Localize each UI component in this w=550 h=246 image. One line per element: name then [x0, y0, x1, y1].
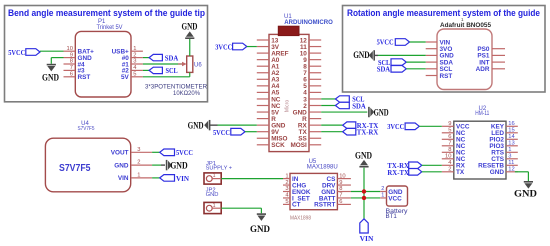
P1 pin 5 5V: [121, 72, 143, 82]
ground (BNO055 GND): [353, 50, 378, 61]
svg-text:MOSI: MOSI: [290, 142, 307, 149]
P1 pin 7 #3: [64, 65, 86, 75]
svg-text:VOUT: VOUT: [111, 150, 129, 157]
label 1 (BNO055 designator): [461, 17, 464, 22]
wire GND to BNO055: [378, 54, 426, 56]
svg-text:Trinket 5V: Trinket 5V: [97, 25, 123, 31]
U1 left pin NC: [257, 103, 281, 110]
U2 pin 10 NC: [442, 154, 466, 164]
svg-text:5VCC: 5VCC: [213, 128, 230, 137]
label U4: [81, 121, 89, 127]
svg-text:SDA: SDA: [165, 53, 179, 62]
svg-text:BT1: BT1: [386, 213, 398, 220]
U1 left pin A4: [257, 83, 280, 90]
wire GND pin 9: [51, 58, 63, 64]
U1 Micro text: [285, 100, 291, 112]
U2 pin 7 NC: [442, 141, 466, 151]
supply flag 5VCC (BNO055 VIN): [377, 38, 410, 47]
U1 left pin A5: [257, 90, 280, 97]
svg-text:3: 3: [285, 186, 288, 192]
svg-text:5: 5: [285, 199, 288, 205]
svg-text:11: 11: [508, 160, 514, 166]
header JP1: [206, 161, 216, 167]
wire SCL flag to SDA pin: [406, 61, 425, 63]
svg-text:RX-TX: RX-TX: [387, 168, 409, 177]
wire U5 BATT to battery VCC: [351, 197, 380, 199]
U1 left pin AREF: [257, 50, 289, 57]
U5 pin 2 CHG: [283, 180, 306, 190]
IC U1 ARDUINOMICRO body: [269, 34, 309, 151]
JP2 body: [204, 202, 221, 213]
wire 3VCC to VCC: [419, 125, 442, 127]
U1 left pin R: [257, 116, 276, 123]
P1 pin 6 RST: [64, 72, 91, 82]
U1 left pin MISO: [257, 136, 288, 143]
ground (P1 GND): [42, 65, 59, 84]
ground (U2 GND): [514, 182, 537, 200]
U2 pin 5 NC: [442, 128, 466, 138]
supply flag VIN (battery net bottom): [360, 219, 374, 243]
net flag RX-TX (U1 RX): [321, 121, 378, 130]
svg-text:SCL: SCL: [166, 66, 178, 75]
wire RX-TX to TX: [422, 171, 442, 173]
svg-text:12: 12: [508, 167, 514, 173]
ground (U1 right GND): [369, 107, 389, 119]
U4 pin 1 VIN: [118, 173, 152, 183]
svg-text:ARDUINOMICRO: ARDUINOMICRO: [284, 19, 333, 26]
wire U2 GND pin to ground: [515, 172, 529, 181]
supply flag 5VCC (P1 BAT+): [8, 48, 40, 57]
ground (potentiometer top): [182, 22, 198, 39]
net flag SCL (P1 #2): [143, 66, 178, 75]
svg-text:RSTRT: RSTRT: [314, 202, 335, 209]
svg-text:GND: GND: [206, 192, 219, 198]
U1 right pin SS: [298, 136, 321, 143]
BNO055 pin INT: [479, 59, 505, 66]
wire TX-RX to RX: [422, 164, 442, 166]
svg-text:1: 1: [213, 203, 216, 209]
svg-text:VIN: VIN: [176, 174, 189, 183]
svg-text:8: 8: [339, 186, 342, 192]
U2 pin 6 NC: [442, 134, 466, 144]
svg-text:SDA: SDA: [352, 101, 366, 110]
svg-text:GND: GND: [188, 120, 204, 131]
frame: bend angle measurement box: [5, 6, 208, 102]
svg-text:GND: GND: [353, 50, 369, 61]
svg-text:TX: TX: [456, 169, 465, 176]
U1 left pin GND: [257, 122, 286, 129]
U5 pin 9 DRV: [322, 180, 351, 190]
U1 left pin A0: [257, 57, 280, 64]
svg-text:GND: GND: [114, 162, 129, 169]
ground (JP2): [250, 214, 270, 235]
value MAX1898U: [307, 164, 338, 171]
potentiometer U6 body: [187, 56, 203, 72]
svg-text:10: 10: [445, 154, 451, 160]
header JP2: [206, 187, 216, 193]
P1 pin 9 GND: [64, 52, 93, 62]
svg-text:GND: GND: [250, 224, 270, 235]
ground (battery net top): [355, 151, 372, 167]
U4 pin 3 VOUT: [111, 147, 152, 157]
svg-text:10: 10: [339, 173, 345, 179]
svg-text:MAX1898U: MAX1898U: [307, 164, 338, 171]
value S7V7F5 label: [78, 126, 95, 132]
U4 pin 2 GND: [114, 160, 152, 170]
module Adafruit BNO055 body: [437, 29, 492, 90]
wire 5VCC to 9V: [245, 131, 257, 133]
label Battery: [386, 208, 409, 215]
U1 USB connector block: [278, 26, 299, 35]
charger U5 MAX1898U body: [290, 173, 337, 209]
regulator U4 S7V7F5 body: [45, 138, 130, 192]
svg-text:5: 5: [133, 72, 136, 78]
U1 right pin 4: [303, 90, 321, 97]
svg-text:GND: GND: [490, 169, 505, 176]
svg-text:2: 2: [448, 167, 451, 173]
svg-text:9: 9: [448, 121, 451, 127]
svg-text:1: 1: [508, 147, 511, 153]
svg-text:MAX1898: MAX1898: [290, 215, 311, 221]
ground (U4 GND): [161, 160, 188, 172]
svg-text:5: 5: [448, 128, 451, 134]
svg-text:14: 14: [508, 134, 515, 140]
value MAX1898 silk: [290, 215, 311, 221]
wire JP2 to ground: [221, 208, 261, 213]
U2 pin 3 CTS: [491, 154, 518, 164]
svg-text:Rotation angle measurement sys: Rotation angle measurement system of the…: [347, 8, 540, 19]
BNO055 pin 3VO: [426, 46, 453, 53]
value SUPPLY +: [206, 166, 233, 172]
supply flag 5VCC (U4 VOUT): [160, 148, 194, 157]
U2 pin 1 RTS: [491, 147, 518, 157]
svg-text:CT: CT: [292, 202, 301, 209]
svg-text:5VCC: 5VCC: [176, 148, 193, 157]
wire JP1 to U5 IN: [221, 178, 283, 180]
U1 right pin R: [302, 116, 321, 123]
U2 pin 4 RX: [442, 160, 466, 170]
BNO055 pin ADR: [476, 66, 505, 73]
wire 5VCC to VIN: [410, 41, 426, 43]
svg-text:1: 1: [213, 173, 216, 179]
BT1 pin 1 VCC: [380, 193, 402, 203]
wire left GND: [218, 124, 257, 126]
title: Rotation angle measurement system of the guide: [347, 8, 540, 19]
U2 pin 14 PIO2: [489, 134, 517, 144]
junction (BATT net): [362, 196, 366, 200]
U1 left pin 9V: [257, 129, 280, 136]
svg-text:10: 10: [67, 46, 73, 52]
svg-text:VIN: VIN: [118, 175, 129, 182]
svg-text:RST: RST: [440, 73, 453, 80]
U2 pin 8 NC: [442, 147, 466, 157]
svg-text:GND: GND: [42, 73, 59, 84]
svg-text:3VCC: 3VCC: [387, 122, 404, 131]
IC P1 Trinket 5V body: [75, 31, 131, 97]
svg-text:2: 2: [133, 52, 136, 58]
title: Bend angle measurement system of the guide tip: [8, 8, 205, 19]
BNO055 pin SCL: [426, 66, 453, 73]
JP2 pin 1: [206, 203, 221, 211]
U1 right pin 5: [303, 83, 321, 90]
label U5: [309, 159, 317, 165]
supply flag 3VCC (U1 3V): [215, 42, 247, 51]
svg-text:3VCC: 3VCC: [215, 42, 232, 51]
net flag SDA (P1 #0): [143, 53, 179, 62]
ground (U1 left GND): [188, 120, 218, 131]
svg-text:6: 6: [339, 199, 342, 205]
svg-text:3: 3: [508, 154, 511, 160]
svg-text:U6: U6: [194, 62, 202, 68]
P1 pin 8 #4: [64, 59, 86, 69]
BNO055 pin PS1: [477, 53, 505, 60]
svg-text:S7V7F5: S7V7F5: [59, 163, 91, 174]
svg-text:3: 3: [133, 59, 136, 65]
svg-text:ADR: ADR: [476, 66, 490, 73]
value GND (JP2): [206, 192, 219, 198]
value ARDUINOMICRO: [284, 19, 333, 26]
U2 pin 11 RESETB: [478, 160, 518, 170]
wire U4 VIN: [152, 177, 160, 179]
wire U5 GND to battery GND: [351, 191, 380, 193]
svg-text:GND: GND: [170, 160, 188, 171]
label U1: [284, 14, 292, 20]
BNO055 pin RST: [426, 73, 453, 80]
svg-text:1: 1: [133, 46, 136, 52]
wire battery vertical net: [363, 168, 365, 219]
svg-text:Bend angle measurement system: Bend angle measurement system of the gui…: [8, 8, 205, 19]
U2 pin 12 GND: [490, 167, 518, 177]
value HM-11: [475, 111, 490, 117]
svg-text:5VCC: 5VCC: [8, 48, 25, 57]
svg-text:VIN: VIN: [360, 234, 374, 243]
value Trinket 5V: [97, 25, 123, 31]
svg-text:6: 6: [448, 134, 451, 140]
U1 right pin TX: [299, 129, 322, 136]
U1 right pin 2: [303, 103, 321, 110]
U1 right pin 10: [300, 50, 322, 57]
net flag SCL (U1 pin3): [321, 95, 364, 104]
U1 right pin 8: [303, 64, 321, 71]
P1 pin 2 #0: [122, 52, 143, 62]
BT1 pin 2 GND: [380, 186, 403, 196]
supply flag VIN (U4 VIN): [160, 174, 190, 183]
battery BT1 body: [387, 186, 408, 206]
JP1 body: [204, 173, 221, 184]
U5 pin 3 ENOK: [283, 186, 311, 196]
svg-text:SCK: SCK: [271, 142, 285, 149]
potentiometer U6 wiper arrow: [178, 62, 187, 67]
svg-text:VCC: VCC: [388, 196, 402, 203]
BNO055 pin SDA: [426, 59, 454, 66]
BNO055 pin GND: [426, 53, 454, 60]
JP1 pin 1: [206, 173, 221, 181]
svg-text:2: 2: [381, 186, 384, 192]
wire #1 to potentiometer wiper: [143, 63, 182, 65]
U1 left pin 13: [257, 37, 279, 44]
svg-text:1: 1: [381, 193, 384, 199]
value Adafruit BNO055: [440, 22, 491, 29]
net flag SDA (BNO055 SCL): [377, 65, 407, 74]
svg-text:TX-RX: TX-RX: [357, 128, 379, 137]
net flag SCL (BNO055 SDA): [378, 58, 406, 67]
wire right GND: [321, 111, 367, 113]
svg-text:7: 7: [70, 65, 73, 71]
wire U4 GND: [152, 164, 161, 166]
supply flag 3VCC (U2 VCC): [387, 122, 419, 131]
BNO055 pin PS0: [477, 46, 505, 53]
U5 pin 5 CT: [283, 199, 301, 209]
U5 pin 1 IN: [283, 173, 299, 183]
U2 pin 9 VCC: [442, 121, 470, 131]
svg-text:GND: GND: [514, 188, 537, 199]
svg-text:7: 7: [339, 193, 342, 199]
U5 pin 4 I_SET: [283, 193, 310, 203]
svg-text:2: 2: [285, 180, 288, 186]
U1 left pin NC: [257, 96, 281, 103]
BNO055 pin VIN: [426, 39, 451, 46]
P1 pin 3 #1: [122, 59, 143, 69]
svg-text:S7V7F5: S7V7F5: [78, 126, 95, 132]
U1 right pin 9: [303, 57, 321, 64]
svg-text:Micro: Micro: [285, 100, 291, 112]
svg-text:GND: GND: [355, 151, 372, 162]
U1 right pin 7: [303, 70, 321, 77]
wire VOUT to 5VCC: [152, 151, 160, 153]
label U2: [479, 106, 487, 112]
svg-text:9: 9: [339, 180, 342, 186]
net flag TX-RX (U1 TX): [321, 128, 378, 137]
U2 pin 13 PIO3: [489, 141, 517, 151]
wire 5V to potentiometer bottom: [143, 72, 190, 76]
U1 right pin GND: [293, 109, 322, 116]
svg-text:5VCC: 5VCC: [377, 38, 394, 47]
frame: rotation angle measurement box: [343, 6, 546, 93]
net flag RX-TX (U2 TX): [387, 168, 421, 177]
U1 right pin 3: [303, 96, 321, 103]
svg-text:7: 7: [448, 141, 451, 147]
U1 right pin 11: [300, 44, 321, 51]
junction (GND net): [362, 189, 366, 193]
wire 5VCC to BAT+: [40, 50, 64, 52]
svg-text:SUPPLY +: SUPPLY +: [206, 166, 233, 172]
U5 pin 7 BATT: [319, 193, 351, 203]
svg-text:13: 13: [508, 141, 514, 147]
U5 pin 10 CS: [327, 173, 351, 183]
label P1: [98, 19, 106, 25]
U1 left pin 5V: [257, 109, 280, 116]
U4 S7V7F5 inner text: [59, 163, 91, 174]
P1 pin 4 #2: [122, 65, 143, 75]
U1 right pin MOSI: [290, 142, 321, 149]
svg-text:Adafruit BNO055: Adafruit BNO055: [440, 22, 491, 29]
U1 left pin A1: [257, 64, 280, 71]
U1 left pin A2: [257, 70, 280, 77]
svg-text:5V: 5V: [121, 74, 130, 81]
wire potentiometer top to GND: [189, 39, 191, 56]
net flag SDA (U1 pin2): [321, 101, 366, 110]
svg-text:10KΩ20%: 10KΩ20%: [173, 90, 200, 97]
svg-text:1: 1: [285, 173, 288, 179]
P1 pin 10 BAT+: [64, 46, 95, 56]
U1 right pin 6: [303, 77, 321, 84]
svg-text:6: 6: [70, 72, 73, 78]
svg-text:GND: GND: [374, 107, 389, 118]
wire 3VCC to 3V: [247, 46, 257, 48]
P1 pin 1 USB+: [112, 46, 143, 56]
U5 pin 6 RSTRT: [314, 199, 351, 209]
U2 pin 15 LED: [491, 128, 518, 138]
label BT1: [386, 213, 398, 220]
U1 right pin RX: [298, 122, 321, 129]
U1 left pin 3V: [257, 44, 280, 51]
value 3*3POTENTIOMETER 10K 20%: [145, 84, 207, 97]
svg-text:2: 2: [137, 160, 140, 166]
U1 left pin A3: [257, 77, 280, 84]
U1 right pin 12: [300, 37, 322, 44]
svg-text:3: 3: [137, 147, 140, 153]
svg-text:1: 1: [137, 173, 140, 179]
svg-text:HM-11: HM-11: [475, 111, 490, 117]
svg-text:16: 16: [508, 121, 514, 127]
net flag TX-RX (U2 RX): [387, 161, 421, 170]
U1 left pin SCK: [257, 142, 285, 149]
svg-text:SDA: SDA: [377, 65, 391, 74]
svg-text:15: 15: [508, 128, 514, 134]
svg-text:RST: RST: [78, 74, 91, 81]
U2 pin 2 TX: [442, 167, 465, 177]
svg-text:9: 9: [70, 52, 73, 58]
wire SDA flag to SCL pin: [406, 68, 425, 70]
supply flag 5VCC (U1 9V): [213, 128, 245, 137]
svg-text:8: 8: [70, 59, 73, 65]
svg-text:GND: GND: [182, 22, 198, 33]
svg-text:8: 8: [448, 147, 451, 153]
U2 pin 16 KEY: [491, 121, 518, 131]
svg-text:P1: P1: [98, 19, 106, 25]
module U2 HM-11 body: [454, 121, 506, 179]
U5 pin 8 GND: [321, 186, 351, 196]
